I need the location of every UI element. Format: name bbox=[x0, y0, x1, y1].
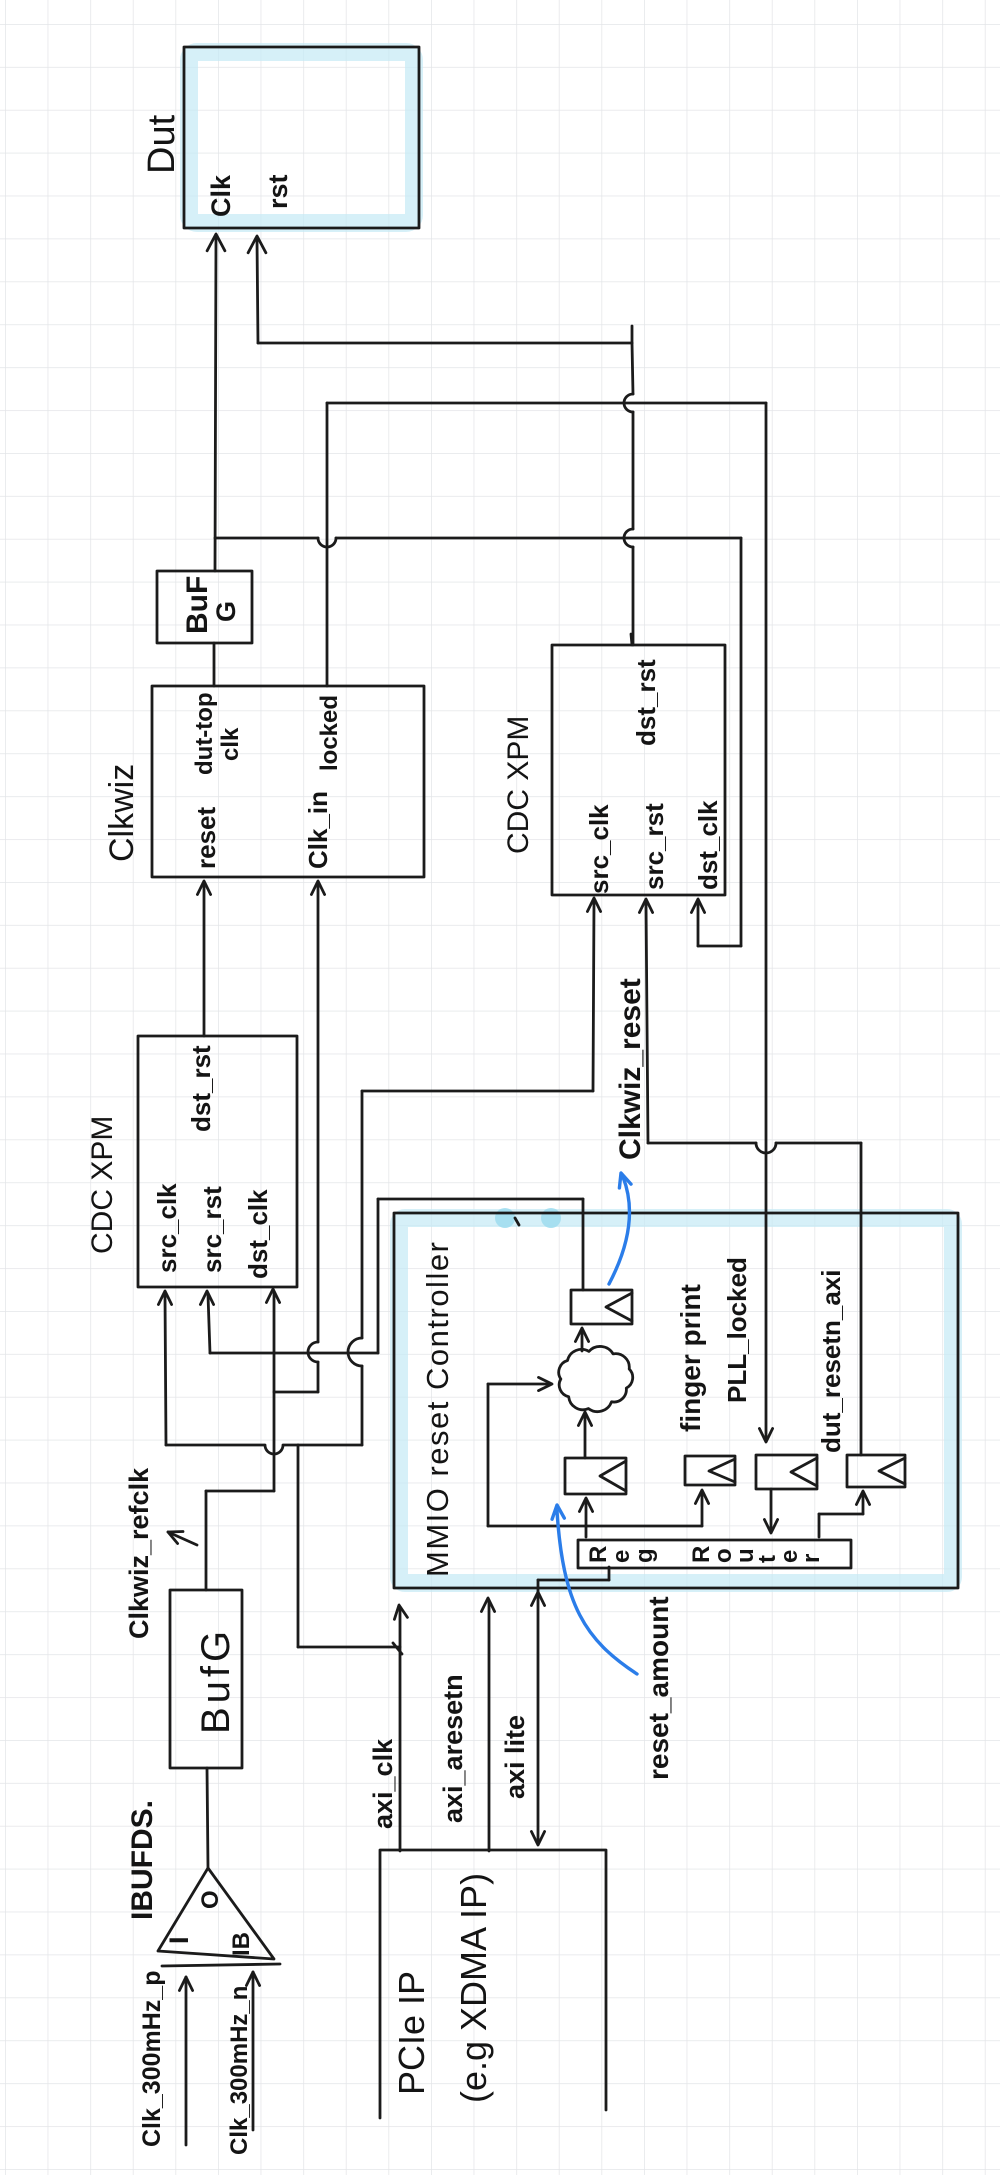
label Dut bbox=[141, 114, 183, 174]
svg-text:O: O bbox=[197, 1890, 224, 1909]
svg-text:CDC XPM: CDC XPM bbox=[86, 1116, 119, 1254]
svg-text:(e.g XDMA IP): (e.g XDMA IP) bbox=[453, 1873, 494, 2103]
annotation arrow at refclk label bbox=[168, 1532, 197, 1546]
buffer IBUFDS triangle bbox=[158, 1868, 280, 1966]
svg-text:src_rst: src_rst bbox=[197, 1186, 227, 1273]
svg-text:Clk: Clk bbox=[206, 174, 236, 217]
svg-text:Clkwiz: Clkwiz bbox=[103, 764, 141, 862]
cloud shape bbox=[559, 1346, 633, 1411]
wire Clkwiz dut_top_clk to BuFG bbox=[213, 643, 216, 686]
label e.g XDMA IP bbox=[453, 1873, 494, 2103]
label reset_amount bbox=[643, 1596, 674, 1780]
block Clkwiz bbox=[152, 686, 424, 877]
svg-text:CDC XPM: CDC XPM bbox=[502, 716, 535, 854]
svg-text:PCIe IP: PCIe IP bbox=[391, 1971, 432, 2095]
svg-text:Clk_300mHz_n: Clk_300mHz_n bbox=[226, 1986, 253, 2155]
wire Clk_300mHz_n input bbox=[246, 1972, 259, 2130]
buffer BufG bbox=[170, 1590, 242, 1768]
port label src_rst (CDC1) bbox=[197, 1186, 227, 1273]
svg-text:reset_amount: reset_amount bbox=[643, 1596, 674, 1780]
pin label O bbox=[197, 1890, 224, 1909]
label dut_resetn_axi bbox=[816, 1269, 846, 1453]
wire CDC1 dst_rst to Clkwiz reset bbox=[197, 881, 210, 1036]
buffer BuFG bbox=[157, 571, 252, 643]
block Dut bbox=[184, 47, 419, 228]
svg-text:clk: clk bbox=[217, 727, 244, 761]
label Clkwiz_refclk bbox=[124, 1467, 154, 1639]
register R3 PLL_locked bbox=[756, 1455, 817, 1489]
svg-text:reset: reset bbox=[191, 807, 221, 869]
svg-text:axi_aresetn: axi_aresetn bbox=[438, 1674, 468, 1823]
blue annotation arrow reset_amount to R1 bbox=[552, 1505, 637, 1674]
label axi_clk bbox=[368, 1738, 398, 1829]
label axi_aresetn bbox=[438, 1674, 468, 1823]
svg-text:dst_rst: dst_rst bbox=[631, 659, 661, 746]
svg-text:g: g bbox=[631, 1548, 658, 1563]
wire R1 to cloud bbox=[578, 1412, 591, 1458]
svg-text:rst: rst bbox=[263, 174, 293, 209]
block CDC XPM 2 bbox=[552, 645, 725, 895]
svg-text:src_clk: src_clk bbox=[584, 804, 614, 894]
port label dst_clk (CDC1) bbox=[243, 1189, 273, 1279]
svg-text:r: r bbox=[798, 1554, 825, 1563]
pin label I bbox=[164, 1936, 194, 1944]
svg-text:Clk_300mHz_p: Clk_300mHz_p bbox=[138, 1971, 166, 2147]
svg-text:MMIO reset Controller: MMIO reset Controller bbox=[420, 1241, 455, 1577]
svg-text:axi_clk: axi_clk bbox=[368, 1738, 398, 1829]
svg-text:IB: IB bbox=[228, 1932, 255, 1956]
wire ibufds output to BufG bbox=[207, 1768, 208, 1868]
port label rst (Dut) bbox=[263, 174, 293, 209]
wire axi_aresetn bbox=[481, 1598, 494, 1851]
svg-text:Clkwiz_refclk: Clkwiz_refclk bbox=[124, 1467, 154, 1639]
label PLL_locked bbox=[722, 1257, 752, 1403]
wire R3 to router bbox=[764, 1489, 777, 1533]
port label dst_clk (CDC2) bbox=[693, 800, 723, 890]
label Clkwiz_reset bbox=[614, 978, 647, 1160]
svg-text:PLL_locked: PLL_locked bbox=[722, 1257, 752, 1403]
label Clkwiz bbox=[103, 764, 141, 862]
port label dut-top clk (Clkwiz) bbox=[191, 692, 244, 775]
highlight around MMIO box bbox=[399, 1218, 953, 1583]
wire dut_resetn_axi net R4 to CDC2 src_rst bbox=[639, 899, 861, 1455]
label axi lite bbox=[500, 1715, 530, 1799]
wire clkwiz_reset net R0 to CDC1 src_rst bbox=[200, 1199, 583, 1353]
svg-text:BuF: BuF bbox=[181, 576, 214, 634]
label CDC XPM 2 bbox=[502, 716, 535, 854]
blue annotation arrow to Clkwiz_reset label bbox=[609, 1173, 631, 1284]
label MMIO reset Controller bbox=[420, 1241, 455, 1577]
wire router to R1 bbox=[579, 1498, 592, 1537]
port label Clk (Dut) bbox=[206, 174, 236, 217]
register R1 reset_amount bbox=[565, 1458, 626, 1494]
junction tick on axi_clk branch bbox=[393, 1643, 402, 1654]
label CDC XPM 1 bbox=[86, 1116, 119, 1254]
port label src_clk (CDC2) bbox=[584, 804, 614, 894]
wire Clk_300mHz_p input bbox=[179, 1977, 192, 2145]
port label locked (Clkwiz) bbox=[316, 695, 343, 771]
port label dst_rst (CDC2) bbox=[631, 659, 661, 746]
label Reg Router (vertical) bbox=[585, 1546, 825, 1563]
label IBUFDS bbox=[126, 1800, 159, 1920]
port label dst_rst (CDC1) bbox=[186, 1045, 216, 1132]
register R4 dut_resetn_axi bbox=[847, 1455, 905, 1487]
label Clk_300mHz_p bbox=[138, 1971, 166, 2147]
svg-text:axi lite: axi lite bbox=[500, 1715, 530, 1799]
stray pen mark bbox=[515, 1218, 519, 1225]
block Reg Router bbox=[578, 1540, 851, 1568]
wire refclk net (BufG out to CDC1 dst_clk and Clkwiz Clk_in) bbox=[206, 881, 325, 1590]
highlighter dots on MMIO edge bbox=[495, 1208, 561, 1228]
svg-text:Clkwiz_reset: Clkwiz_reset bbox=[614, 978, 647, 1160]
block CDC XPM 1 bbox=[138, 1036, 297, 1287]
label PCIe IP bbox=[391, 1971, 432, 2095]
wire cloud to R0 bbox=[575, 1328, 588, 1351]
svg-text:G: G bbox=[211, 601, 241, 622]
svg-text:dut_resetn_axi: dut_resetn_axi bbox=[816, 1269, 846, 1453]
wire axi_clk net from PCIe bbox=[158, 898, 600, 1851]
svg-text:src_clk: src_clk bbox=[152, 1183, 182, 1273]
wire router to R4 bbox=[819, 1491, 870, 1537]
block MMIO reset Controller box bbox=[394, 1213, 958, 1588]
port label src_clk (CDC1) bbox=[152, 1183, 182, 1273]
svg-text:I: I bbox=[164, 1936, 194, 1944]
register R2 fingerprint bbox=[685, 1456, 735, 1485]
port label reset (Clkwiz) bbox=[191, 807, 221, 869]
label finger print bbox=[675, 1284, 706, 1432]
svg-text:dut-top: dut-top bbox=[191, 692, 218, 775]
wire axi lite (bidirectional) bbox=[531, 1567, 609, 1845]
label Clk_300mHz_n bbox=[226, 1986, 253, 2155]
svg-text:Dut: Dut bbox=[141, 114, 183, 174]
wire CDC2 dst_rst to Dut rst bbox=[248, 236, 633, 645]
wire BuFG to Dut Clk with branch to CDC2 dst_clk bbox=[207, 234, 741, 946]
svg-text:dst_rst: dst_rst bbox=[186, 1045, 216, 1132]
svg-text:locked: locked bbox=[316, 695, 343, 771]
port label Clk_in (Clkwiz) bbox=[303, 791, 333, 869]
pin label IB bbox=[228, 1932, 255, 1956]
block PCIe IP bbox=[380, 1850, 606, 2118]
register R0 clkwiz_reset bbox=[571, 1290, 632, 1324]
svg-text:dst_clk: dst_clk bbox=[693, 800, 723, 890]
svg-text:src_rst: src_rst bbox=[639, 803, 669, 890]
highlight around Dut box bbox=[189, 52, 414, 223]
wire locked net Clkwiz to PLL_locked register bbox=[327, 403, 773, 1442]
svg-text:IBUFDS.: IBUFDS. bbox=[126, 1800, 159, 1920]
svg-text:BufG: BufG bbox=[194, 1627, 238, 1734]
svg-text:finger print: finger print bbox=[675, 1284, 706, 1432]
svg-text:dst_clk: dst_clk bbox=[243, 1189, 273, 1279]
wire feedback to cloud top and R2 fingerprint bbox=[488, 1377, 709, 1526]
port label src_rst (CDC2) bbox=[639, 803, 669, 890]
svg-text:Clk_in: Clk_in bbox=[303, 791, 333, 869]
